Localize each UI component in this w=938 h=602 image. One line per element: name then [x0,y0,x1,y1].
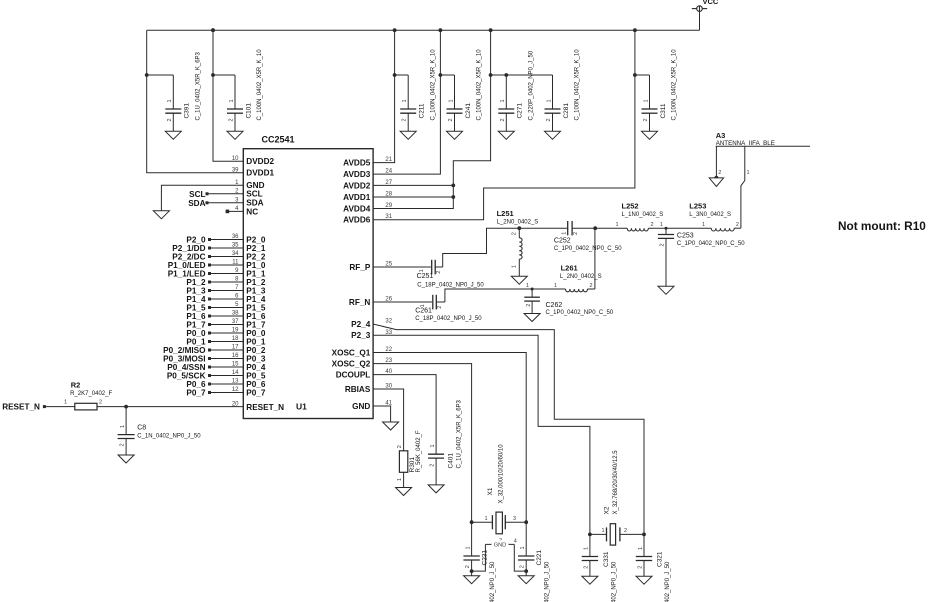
net P1_1/LED [168,270,244,279]
svg-text:1: 1 [448,99,454,102]
svg-text:DVDD2: DVDD2 [246,157,274,166]
svg-text:AVDD1: AVDD1 [343,193,371,202]
wire VCC drop [699,11,701,30]
svg-text:C_1P0_0402_NP0_C_50: C_1P0_0402_NP0_C_50 [554,246,622,252]
net SDA [188,199,243,208]
resistor R301 [373,389,421,496]
svg-text:X_32.000/10/20/60/10: X_32.000/10/20/60/10 [498,444,504,504]
svg-text:1: 1 [561,232,567,235]
ground antenna [709,176,723,187]
capacitor C261 [373,295,482,322]
pin 23 XOSC_Q2 [332,358,393,368]
svg-text:X1: X1 [487,487,494,495]
svg-text:CC2541: CC2541 [262,134,295,144]
ground (pin 41) [373,406,390,422]
svg-text:A3: A3 [716,131,726,140]
svg-text:C_100N_0402_X5R_K_10: C_100N_0402_X5R_K_10 [672,49,678,121]
svg-text:1: 1 [484,516,487,522]
net P1_3 [186,287,243,296]
svg-text:C_1P0_0402_NP0_C_50: C_1P0_0402_NP0_C_50 [546,310,614,316]
svg-text:C221: C221 [536,550,543,566]
wire AVDD6 [373,30,635,220]
svg-text:C231: C231 [481,550,488,566]
svg-text:2: 2 [512,232,518,235]
svg-text:C252: C252 [554,238,571,245]
pin 6 P1_4 [235,294,266,304]
svg-text:L_2N0_0402_S: L_2N0_0402_S [497,219,539,225]
capacitor C211 [393,28,437,139]
net P0_4/SSN [167,363,243,372]
wire RF_N [445,289,566,302]
svg-text:1: 1 [465,546,471,549]
svg-text:C271: C271 [517,103,524,119]
svg-text:RESET_N: RESET_N [246,403,284,412]
svg-text:C_12P_0402_NP0_J_50: C_12P_0402_NP0_J_50 [544,561,550,602]
svg-text:2: 2 [436,271,442,274]
svg-text:39: 39 [232,167,239,173]
net P1_5 [186,304,243,313]
svg-text:2: 2 [643,118,649,121]
power rail VCC net [147,29,700,31]
pin 34 P2_2 [232,251,266,261]
svg-text:SCL: SCL [246,190,262,199]
svg-text:2: 2 [583,566,589,569]
svg-text:27: 27 [385,180,392,186]
net P1_6 [186,312,243,321]
svg-text:2: 2 [430,464,436,467]
resistor R2 [64,380,243,410]
pin 19 P0_0 [232,328,266,338]
pin 37 P1_7 [232,319,266,329]
svg-text:NC: NC [246,207,258,216]
net P2_2/DC [172,253,243,262]
svg-text:2: 2 [659,243,665,246]
pin 10 DVDD2 [232,156,275,166]
net RESET_N [2,403,66,412]
svg-text:AVDD3: AVDD3 [343,170,371,179]
pin 13 P0_6 [232,379,266,389]
svg-text:C_1P0_0402_NP0_C_50: C_1P0_0402_NP0_C_50 [677,241,745,247]
net P1_7 [186,321,243,330]
svg-text:DCOUPL: DCOUPL [336,371,371,380]
capacitor C241 [439,28,483,139]
wire AVDD5 [373,30,394,162]
pin 35 P2_1 [232,243,266,253]
inductor L261 [554,228,602,292]
wire AVDD2 AVDD1 AVDD4 [373,30,490,208]
inductor L252 [595,202,666,231]
net P1_2 [186,278,243,287]
pin 21 AVDD5 [343,157,393,167]
inductor L251 [497,209,539,284]
svg-text:C_12P_0402_NP0_J_50: C_12P_0402_NP0_J_50 [490,561,496,602]
svg-text:1: 1 [229,99,235,102]
svg-text:1: 1 [526,283,529,289]
pin 17 P0_2 [232,345,266,355]
svg-text:C_100N_0402_X5R_K_10: C_100N_0402_X5R_K_10 [477,49,483,121]
svg-text:L261: L261 [561,264,578,273]
svg-text:R_56K_0402_F: R_56K_0402_F [416,430,422,472]
svg-text:RF_P: RF_P [349,263,370,272]
svg-text:Not mount: R10: Not mount: R10 [838,219,926,233]
wire DVDD1 [147,30,244,173]
net P1_4 [186,295,243,304]
svg-text:C_220P_0402_NP0_J_50: C_220P_0402_NP0_J_50 [529,50,535,120]
svg-text:2: 2 [229,118,235,121]
svg-text:P0_7: P0_7 [186,389,206,398]
capacitor C281 [545,49,581,140]
pin 8 P1_2 [235,277,266,287]
capacitor C252 [554,221,622,252]
svg-text:31: 31 [385,214,392,220]
svg-text:VCC: VCC [703,0,719,6]
svg-text:C281: C281 [563,103,570,119]
pin 2 SCL [235,188,263,198]
svg-text:C8: C8 [137,425,146,432]
svg-text:XOSC_Q1: XOSC_Q1 [332,348,371,357]
svg-text:2: 2 [736,222,739,228]
svg-text:RBIAS: RBIAS [345,385,371,394]
pin 33 P2_3 [351,330,393,340]
svg-text:1: 1 [554,283,557,289]
svg-text:3: 3 [513,516,516,522]
net P0_2/MISO [163,346,243,355]
wire antenna pin 2 [715,146,717,176]
svg-text:2: 2 [624,528,627,534]
wire DVDD2 [211,28,215,32]
svg-text:1: 1 [430,444,436,447]
svg-text:AVDD4: AVDD4 [343,204,371,213]
svg-text:AVDD5: AVDD5 [343,159,371,168]
svg-text:RESET_N: RESET_N [2,403,40,412]
no-connect pin 4 [226,210,244,214]
svg-text:1: 1 [419,269,425,272]
svg-text:C391: C391 [184,103,191,119]
wire RF_P [443,228,568,267]
svg-text:AVDD6: AVDD6 [343,216,371,225]
svg-text:2: 2 [120,443,126,446]
svg-text:L_1N0_0402_S: L_1N0_0402_S [622,212,664,218]
svg-text:1: 1 [702,222,705,228]
svg-text:C101: C101 [245,103,252,119]
svg-text:C321: C321 [657,551,664,567]
pin 32 P2_4 [351,319,393,329]
svg-text:2: 2 [546,118,552,121]
pin 39 DVDD1 [232,167,275,177]
svg-text:RF_N: RF_N [349,298,370,307]
pin 12 P0_7 [232,387,266,397]
svg-text:2: 2 [573,232,579,235]
svg-text:L252: L252 [622,202,639,211]
svg-text:X_32.768/20/30/40/12.5: X_32.768/20/30/40/12.5 [613,450,619,515]
wire AVDD branch [489,28,493,32]
pin 4 NC [235,206,258,216]
svg-text:24: 24 [385,169,392,175]
svg-text:10: 10 [232,156,239,162]
svg-text:2: 2 [651,222,654,228]
capacitor C331 [582,534,618,602]
pin 1 GND [235,180,264,190]
crystal X2 [588,450,646,545]
svg-text:C_100N_0402_X5R_K_10: C_100N_0402_X5R_K_10 [575,49,581,121]
svg-text:C251: C251 [417,273,434,280]
pin 3 SDA [235,197,264,207]
svg-text:C211: C211 [419,103,426,118]
capacitor C251 [373,260,484,289]
net P0_7 [186,389,243,398]
svg-text:1: 1 [511,265,517,268]
svg-text:1: 1 [546,99,552,102]
svg-text:1: 1 [601,528,604,534]
inductor L253 [666,202,741,231]
capacitor C101 [211,28,263,139]
capacitor C311 [633,28,678,139]
net P0_3/MOSI [163,355,243,364]
svg-text:4: 4 [514,539,517,545]
svg-text:2: 2 [526,304,532,307]
antenna A3 [716,131,810,147]
net P0_5/SCK [167,372,243,381]
svg-text:SDA: SDA [188,199,205,208]
svg-text:R2: R2 [71,380,81,389]
pin 26 RF_N [349,297,393,307]
svg-text:C253: C253 [677,233,694,240]
pin 18 P0_1 [232,336,266,346]
svg-text:2: 2 [590,283,593,289]
pin 38 P1_6 [232,311,266,321]
svg-text:AVDD2: AVDD2 [343,181,371,190]
svg-text:U1: U1 [296,401,307,411]
svg-text:R_2K7_0402_F: R_2K7_0402_F [70,391,112,397]
svg-text:P2_4: P2_4 [351,320,371,329]
svg-text:P0_7: P0_7 [246,388,266,397]
svg-text:2: 2 [448,118,454,121]
pin 7 P1_3 [235,285,266,295]
pin 11 P1_0 [232,260,266,270]
capacitor C221 [518,522,550,602]
svg-text:C401: C401 [447,453,454,469]
net SCL [189,190,243,199]
svg-text:L_3N0_0402_S: L_3N0_0402_S [689,212,731,218]
pin 36 P2_0 [232,234,266,244]
svg-text:2: 2 [437,306,443,309]
pin 28 AVDD1 [343,192,393,202]
svg-text:C_1U_0402_X5R_K_6P3: C_1U_0402_X5R_K_6P3 [196,51,202,120]
node RESET junction [124,405,128,409]
svg-text:1: 1 [638,547,644,550]
svg-text:C_18P_0402_NP0_J_50: C_18P_0402_NP0_J_50 [415,316,482,322]
op-amp U1 CC2541 chip body [243,149,373,419]
svg-text:1: 1 [747,170,750,176]
pin 25 RF_P [349,262,392,272]
svg-text:28: 28 [385,192,392,198]
svg-text:32: 32 [385,319,392,325]
pin 5 P1_5 [235,302,266,312]
net P0_1 [186,338,243,347]
svg-text:C_100N_0402_X5R_K_10: C_100N_0402_X5R_K_10 [257,49,263,121]
capacitor C231 [463,522,495,602]
node RF junction [593,226,597,230]
svg-text:1: 1 [64,400,67,406]
wire P2_4 to X2 [373,324,644,534]
net P0_0 [186,329,243,338]
svg-text:C262: C262 [546,302,563,309]
svg-text:C_12P_0402_NP0_J_50: C_12P_0402_NP0_J_50 [611,561,617,602]
capacitor C262 [524,283,614,322]
svg-text:XOSC_Q2: XOSC_Q2 [332,360,371,369]
svg-text:1: 1 [520,546,526,549]
svg-text:C_1U_0402_X5R_K_6P3: C_1U_0402_X5R_K_6P3 [456,399,462,468]
capacitor C321 [636,534,671,602]
svg-text:C311: C311 [660,103,667,118]
net P1_0/LED [168,261,244,270]
svg-text:1: 1 [660,222,663,228]
svg-text:C_1N_0402_NP0_J_50: C_1N_0402_NP0_J_50 [137,433,201,439]
pin 29 AVDD4 [343,203,393,213]
svg-text:2: 2 [718,170,721,176]
svg-text:1: 1 [584,547,590,550]
pin 24 AVDD3 [343,169,393,179]
pin 14 P0_5 [232,370,266,380]
svg-text:2: 2 [637,566,643,569]
svg-text:2: 2 [99,400,102,406]
svg-text:1: 1 [643,99,649,102]
net P0_6 [186,380,243,389]
svg-text:1: 1 [167,99,173,102]
svg-text:21: 21 [385,157,392,163]
svg-text:2: 2 [397,445,403,448]
svg-text:DVDD1: DVDD1 [246,169,274,178]
crystal X1 [470,444,528,545]
svg-text:L251: L251 [497,209,514,218]
capacitor C271 [498,50,534,139]
svg-text:P2_3: P2_3 [351,331,371,340]
svg-text:29: 29 [385,203,392,209]
pin 20 RESET_N [232,402,284,412]
svg-text:C_12P_0402_NP0_J_50: C_12P_0402_NP0_J_50 [665,561,671,602]
svg-text:C_18P_0402_NP0_J_50: C_18P_0402_NP0_J_50 [417,283,484,289]
svg-text:SCL: SCL [189,190,205,199]
capacitor C253 [658,222,745,294]
svg-text:2: 2 [402,118,408,121]
svg-text:C331: C331 [603,551,610,567]
wire XOSC_Q2 [373,364,471,523]
svg-text:L253: L253 [689,202,706,211]
wire XOSC_Q1 [373,353,526,523]
svg-text:GND: GND [352,402,370,411]
pin 9 P1_1 [235,268,266,278]
capacitor C8 [118,407,202,463]
svg-text:2: 2 [465,565,471,568]
pin 40 DCOUPL [336,369,393,379]
pin 16 P0_3 [232,353,266,363]
pin 30 RBIAS [345,384,393,394]
wire AVDD3 [373,30,440,174]
svg-text:C_100N_0402_X5R_K_10: C_100N_0402_X5R_K_10 [430,49,436,121]
svg-text:2: 2 [520,565,526,568]
svg-text:1: 1 [120,425,126,428]
net P2_1/DD [172,244,243,253]
pin 27 AVDD2 [343,180,393,190]
capacitor C391 [145,51,202,139]
svg-text:1: 1 [616,222,619,228]
svg-text:1: 1 [500,99,506,102]
wire P2_3 to X2 [373,335,590,534]
svg-text:C241: C241 [465,103,472,119]
pin 31 AVDD6 [343,214,393,224]
svg-text:2: 2 [500,118,506,121]
svg-text:1: 1 [402,99,408,102]
svg-text:GND: GND [494,543,506,549]
svg-text:2: 2 [167,118,173,121]
ground (pin 1 GND) [161,185,243,211]
wire GND bracket X1 [472,541,527,572]
pin 22 XOSC_Q1 [332,347,393,357]
wire antenna pin 1 [741,146,745,228]
svg-text:X2: X2 [604,506,611,514]
svg-text:L_2N0_0402_S: L_2N0_0402_S [560,274,602,280]
svg-text:1: 1 [397,478,403,481]
net P2_0 [186,236,243,245]
VCC power symbol [692,6,707,12]
pin 15 P0_4 [232,362,266,372]
pin 41 GND [352,401,393,411]
capacitor C401 [373,375,462,493]
svg-text:C261: C261 [415,308,432,315]
